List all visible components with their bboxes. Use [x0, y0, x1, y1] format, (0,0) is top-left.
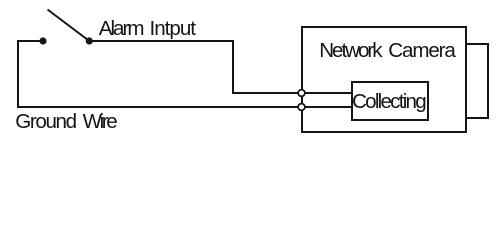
Network Camera enclosure box: [302, 27, 466, 132]
svg-text:Alarm: Alarm: [99, 17, 145, 40]
svg-text:Wire: Wire: [83, 110, 118, 133]
switch S1 left contact dot: [39, 37, 46, 44]
wire: alarm terminal to collecting module: [302, 92, 352, 94]
wire: top-left horizontal to switch left contact: [17, 40, 43, 42]
wire: horizontal into alarm-in terminal: [232, 92, 302, 94]
switch S1 right contact dot: [86, 37, 93, 44]
svg-text:Intput: Intput: [150, 17, 197, 40]
wire: ground wire horizontal: [17, 106, 302, 108]
svg-text:Collecting: Collecting: [352, 90, 427, 113]
node: ground terminal (open circle): [298, 104, 305, 111]
wire: vertical drop at corner: [232, 40, 234, 94]
svg-text:Camera: Camera: [388, 39, 456, 62]
wire: ground terminal to collecting module: [302, 106, 352, 108]
camera connector protrusion: [466, 44, 488, 118]
Collecting module box: [352, 82, 428, 120]
wire: left vertical return: [17, 40, 19, 108]
wire: alarm line from switch right contact to corner: [89, 40, 233, 42]
svg-text:Ground: Ground: [15, 110, 77, 133]
node: alarm input terminal (open circle): [298, 90, 305, 97]
switch S1 blade (open): [48, 10, 90, 42]
svg-text:Network: Network: [319, 39, 383, 62]
